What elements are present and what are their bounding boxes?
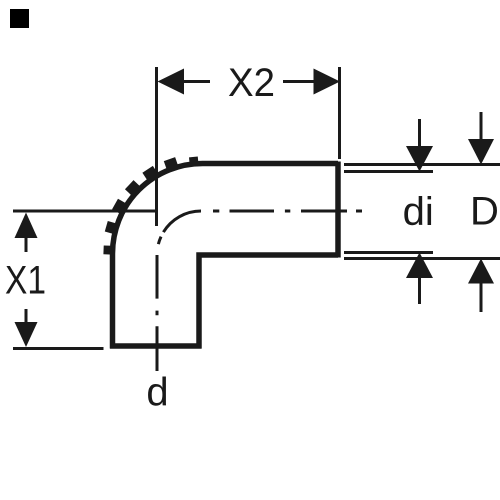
D top shaft	[480, 112, 483, 139]
rib tooth 3	[142, 166, 158, 182]
horizontal centerline solid part (X1 top reference)	[13, 210, 157, 213]
D bottom reference line	[344, 257, 500, 260]
inner edge (bottom of horizontal leg + right wall of vertical leg)	[199, 255, 338, 349]
svg-text:D: D	[470, 190, 499, 234]
bend axis arc dash-dot	[157, 211, 201, 255]
outer top edge	[203, 161, 339, 167]
D up arrowhead	[468, 259, 494, 284]
dimension D arrows	[468, 112, 499, 312]
dimension di / D reference lines	[344, 165, 500, 259]
corner registration square	[10, 9, 29, 28]
D top reference line	[344, 163, 500, 166]
svg-text:X2: X2	[228, 61, 275, 105]
left wall of vertical leg	[110, 254, 116, 349]
di down arrowhead	[406, 146, 433, 172]
rib tooth 7	[103, 245, 112, 254]
di top reference line	[344, 170, 433, 173]
X2 dimension line right segment	[283, 80, 314, 83]
rib tooth 2	[164, 157, 179, 170]
di up arrowhead	[406, 253, 433, 279]
D down arrowhead	[468, 139, 494, 165]
D bottom shaft	[480, 284, 483, 313]
X1 down arrowhead	[15, 322, 38, 347]
di bottom shaft	[418, 278, 421, 304]
di top shaft	[418, 119, 421, 146]
rib tooth 4	[125, 180, 141, 196]
X2 dimension line left segment	[183, 80, 210, 83]
X2 left arrowhead	[158, 69, 185, 95]
dimension X1	[5, 213, 104, 349]
svg-text:di: di	[403, 190, 434, 234]
right end cap	[335, 162, 341, 258]
dimension X2	[158, 61, 341, 159]
X1 lower shaft	[25, 309, 28, 323]
horizontal centerline dash-dot	[201, 210, 362, 213]
di bottom reference line	[344, 251, 433, 254]
rib tooth 5	[112, 199, 127, 215]
pipe elbow outline	[110, 162, 338, 349]
outer bend arc	[113, 164, 203, 254]
bottom end cap	[110, 343, 202, 349]
svg-text:d: d	[146, 371, 168, 415]
X2 right arrowhead	[314, 69, 341, 95]
vertical centerline dash-dot	[156, 255, 159, 371]
X2 right extension line	[338, 67, 341, 159]
rib tooth 1	[189, 157, 198, 165]
rib tooth 6	[105, 221, 118, 234]
vertical centerline solid part (X2 left extension)	[155, 67, 158, 226]
svg-text:X1: X1	[5, 259, 46, 303]
X1 upper shaft	[25, 238, 28, 252]
X1 bottom reference line	[13, 347, 104, 350]
X1 up arrowhead	[15, 213, 38, 239]
dimension di arrows	[403, 119, 434, 304]
